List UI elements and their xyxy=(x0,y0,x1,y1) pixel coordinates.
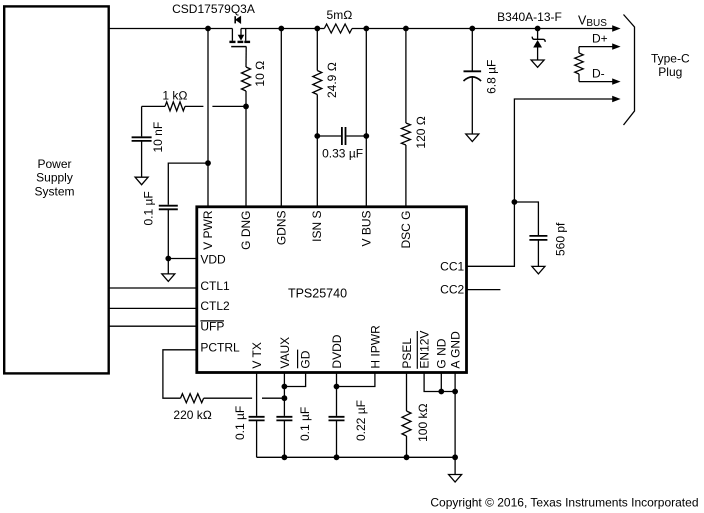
svg-text:0.1 µF: 0.1 µF xyxy=(233,406,247,440)
resistor 24.9 Ohm xyxy=(313,62,339,98)
svg-text:B340A-13-F: B340A-13-F xyxy=(497,10,562,24)
capacitor 0.1 uF (VAUX) xyxy=(276,407,312,441)
wire: CC2 stub xyxy=(467,289,501,291)
svg-text:0.33 µF: 0.33 µF xyxy=(322,146,363,160)
wire: top VBUS rail left segment xyxy=(109,28,232,30)
wire: VAUX vertical xyxy=(283,373,285,416)
ground (6.8 uF) xyxy=(466,134,479,142)
node: rail junction DSCG xyxy=(403,26,409,32)
svg-text:DSC G: DSC G xyxy=(399,211,413,249)
node: CC1/560pf junction xyxy=(512,199,518,205)
node: AGND bus junction xyxy=(452,454,458,460)
svg-text:ISN S: ISN S xyxy=(310,211,324,242)
svg-text:10 Ω: 10 Ω xyxy=(253,61,267,87)
body diode glyph xyxy=(234,16,236,23)
node: rail junction VBUS drop xyxy=(363,26,369,32)
resistor 120 Ohm xyxy=(401,116,428,149)
wire: cap to VDD node xyxy=(167,209,169,258)
svg-text:Supply: Supply xyxy=(36,171,73,185)
wire: CTL2 xyxy=(109,307,197,309)
svg-text:24.9 Ω: 24.9 Ω xyxy=(325,62,339,98)
source lead xyxy=(231,29,233,41)
node: DVDD bus junction xyxy=(334,454,340,460)
wire: DSCG vertical top xyxy=(405,29,407,124)
svg-text:VAUX: VAUX xyxy=(278,337,292,369)
gate bar xyxy=(231,46,246,48)
svg-text:6.8 µF: 6.8 µF xyxy=(484,60,498,94)
node: ISNS/0.33uF junction xyxy=(314,133,320,139)
wire: branch to 0.1uF/VDD xyxy=(168,163,208,205)
svg-text:CTL2: CTL2 xyxy=(200,299,230,313)
svg-text:560 pf: 560 pf xyxy=(553,222,567,256)
wire: VAUX cap to bus xyxy=(283,420,285,457)
resistor 1 kOhm (gate snubber) xyxy=(142,89,246,111)
node: rail junction diode xyxy=(535,26,541,32)
svg-text:Type-C: Type-C xyxy=(651,51,690,65)
drain lead xyxy=(245,29,247,41)
wire: UFP xyxy=(109,325,197,327)
svg-text:D+: D+ xyxy=(592,31,608,45)
wire: VTX cap to bus xyxy=(256,420,258,457)
node: rail junction 6.8uF xyxy=(469,26,475,32)
IC U1 TPS25740 box xyxy=(197,207,467,373)
resistor 10 Ohm (gate) xyxy=(242,61,267,91)
node: GND tie junction xyxy=(438,389,444,395)
ground (main) xyxy=(449,475,462,483)
capacitor 560 pf xyxy=(514,202,567,266)
svg-text:5mΩ: 5mΩ xyxy=(327,8,353,22)
node: rail junction at VPWR drop xyxy=(205,26,211,32)
wire: VBUS vertical xyxy=(365,29,367,207)
wire: 100k to bus xyxy=(406,436,408,457)
type-c plug bracket xyxy=(624,15,690,126)
svg-text:PSEL: PSEL xyxy=(400,338,414,369)
node: VAUX/GD junction xyxy=(282,384,288,390)
wire: GDNS vertical xyxy=(280,29,282,207)
node: VDD junction xyxy=(165,256,171,262)
wire: bottom ground bus xyxy=(257,456,456,458)
svg-text:System: System xyxy=(34,184,74,198)
node: PSEL bus junction xyxy=(404,454,410,460)
diode D1 B340A-13-F (schottky to gnd) xyxy=(497,10,562,60)
wire: PSEL vertical xyxy=(406,373,408,412)
wire: ISNS vertical bottom xyxy=(316,95,318,207)
wire: gate lead down from FET gate xyxy=(245,47,247,67)
capacitor 6.8 uF (polarized) xyxy=(464,29,499,135)
wire: D+ line with arrow xyxy=(579,31,621,50)
power supply system box xyxy=(4,6,109,373)
capacitor 0.22 uF (DVDD) xyxy=(329,400,368,441)
wire: GND pin vertical xyxy=(440,373,442,392)
svg-text:DVDD: DVDD xyxy=(330,334,344,368)
capacitor 0.1 uF (VTX) xyxy=(233,406,265,440)
resistor 220 kOhm xyxy=(173,394,212,423)
svg-text:120 Ω: 120 Ω xyxy=(414,116,428,149)
label VBUS with arrow into plug xyxy=(578,14,621,32)
wire: PCTRL to 220k xyxy=(163,350,197,398)
wire: DSCG vertical bottom xyxy=(405,145,407,207)
svg-text:10 nF: 10 nF xyxy=(151,122,165,153)
svg-text:0.1 µF: 0.1 µF xyxy=(142,191,156,225)
node: VPWR/VDD branch junction xyxy=(205,160,211,166)
wire: GD pin to VAUX xyxy=(284,373,305,387)
ground (VDD) xyxy=(162,274,175,282)
ground (10 nF) xyxy=(135,177,148,185)
svg-text:EN12V: EN12V xyxy=(418,331,432,369)
svg-text:100 kΩ: 100 kΩ xyxy=(416,403,430,442)
wire: EN12V pin to gnd tie xyxy=(424,373,455,392)
node: rail junction GDNS xyxy=(278,26,284,32)
svg-text:V TX: V TX xyxy=(250,342,264,368)
resistor 5 mOhm (current sense, on rail) xyxy=(324,8,352,33)
svg-text:0.22 µF: 0.22 µF xyxy=(354,400,368,441)
ground (560 pf) xyxy=(532,266,545,274)
node: DVDD/HIPWR junction xyxy=(334,384,340,390)
transistor Q1 CSD17579Q3A (pass NFET) xyxy=(172,2,255,46)
capacitor 0.1 uF (VDD) xyxy=(142,191,178,225)
svg-text:D-: D- xyxy=(592,66,605,80)
wire: D- line with arrow xyxy=(579,66,621,85)
wire: DVDD cap to bus xyxy=(336,420,338,457)
wire: VDD node to ground xyxy=(167,259,169,274)
svg-text:CTL1: CTL1 xyxy=(200,279,230,293)
wire: gate node down to GDNG pin xyxy=(245,91,247,207)
node: AGND tie junction xyxy=(452,389,458,395)
svg-text:1 kΩ: 1 kΩ xyxy=(162,89,187,103)
wire: CTL1 xyxy=(109,287,197,289)
node: VBUS line/0.33uF junction xyxy=(363,133,369,139)
node: VAUX bus junction xyxy=(282,454,288,460)
svg-text:TPS25740: TPS25740 xyxy=(288,287,347,301)
svg-text:220 kΩ: 220 kΩ xyxy=(173,408,212,422)
svg-text:CC1: CC1 xyxy=(440,259,464,273)
wire: AGND vertical xyxy=(454,373,456,458)
svg-text:Power: Power xyxy=(37,157,71,171)
svg-text:G ND: G ND xyxy=(435,338,449,368)
svg-text:H IPWR: H IPWR xyxy=(368,325,382,369)
body stub with arrow xyxy=(240,29,242,36)
wire: VDD pin xyxy=(168,258,197,260)
svg-text:V BUS: V BUS xyxy=(360,211,374,247)
wire: CC1 to plug with arrow xyxy=(467,96,621,266)
node: gate/1k junction xyxy=(243,104,249,110)
svg-text:G DNG: G DNG xyxy=(239,211,253,250)
pin label UFP (active low) xyxy=(200,319,224,333)
wire: VPWR vertical from rail to pin xyxy=(207,29,209,207)
node: VAUX/220k junction xyxy=(282,395,288,401)
svg-text:VDD: VDD xyxy=(200,252,226,266)
svg-text:Copyright © 2016, Texas Instru: Copyright © 2016, Texas Instruments Inco… xyxy=(430,495,698,509)
wire: DVDD vertical xyxy=(336,373,338,416)
capacitor 0.33 uF xyxy=(317,127,366,160)
wire: ISNS vertical top xyxy=(316,29,318,71)
node: rail junction ISNS xyxy=(314,26,320,32)
svg-text:A GND: A GND xyxy=(449,331,463,369)
svg-text:V PWR: V PWR xyxy=(201,210,215,250)
wire: HIPWR pin to DVDD xyxy=(337,373,375,387)
pin label EN12V (bottom, active low) xyxy=(417,331,431,369)
svg-text:GD: GD xyxy=(299,350,313,368)
pin label GD (bottom, active low) xyxy=(298,350,313,369)
resistor 100 kOhm (PSEL) xyxy=(402,403,430,442)
svg-text:CSD17579Q3A: CSD17579Q3A xyxy=(172,2,255,16)
wire: top VBUS rail right segment xyxy=(241,28,613,30)
wire: bus to ground symbol xyxy=(454,457,456,474)
svg-text:Plug: Plug xyxy=(658,65,682,79)
resistor between D+ and D- xyxy=(578,47,580,53)
capacitor 10 nF xyxy=(132,106,165,177)
svg-text:GDNS: GDNS xyxy=(275,211,289,246)
svg-text:PCTRL: PCTRL xyxy=(200,341,240,355)
svg-text:CC2: CC2 xyxy=(440,283,464,297)
wire: VTX vertical xyxy=(256,373,258,416)
wire: 220k to VAUX (hops over VTX) xyxy=(204,397,285,399)
svg-text:0.1 µF: 0.1 µF xyxy=(298,407,312,441)
ground (diode) xyxy=(531,60,544,67)
